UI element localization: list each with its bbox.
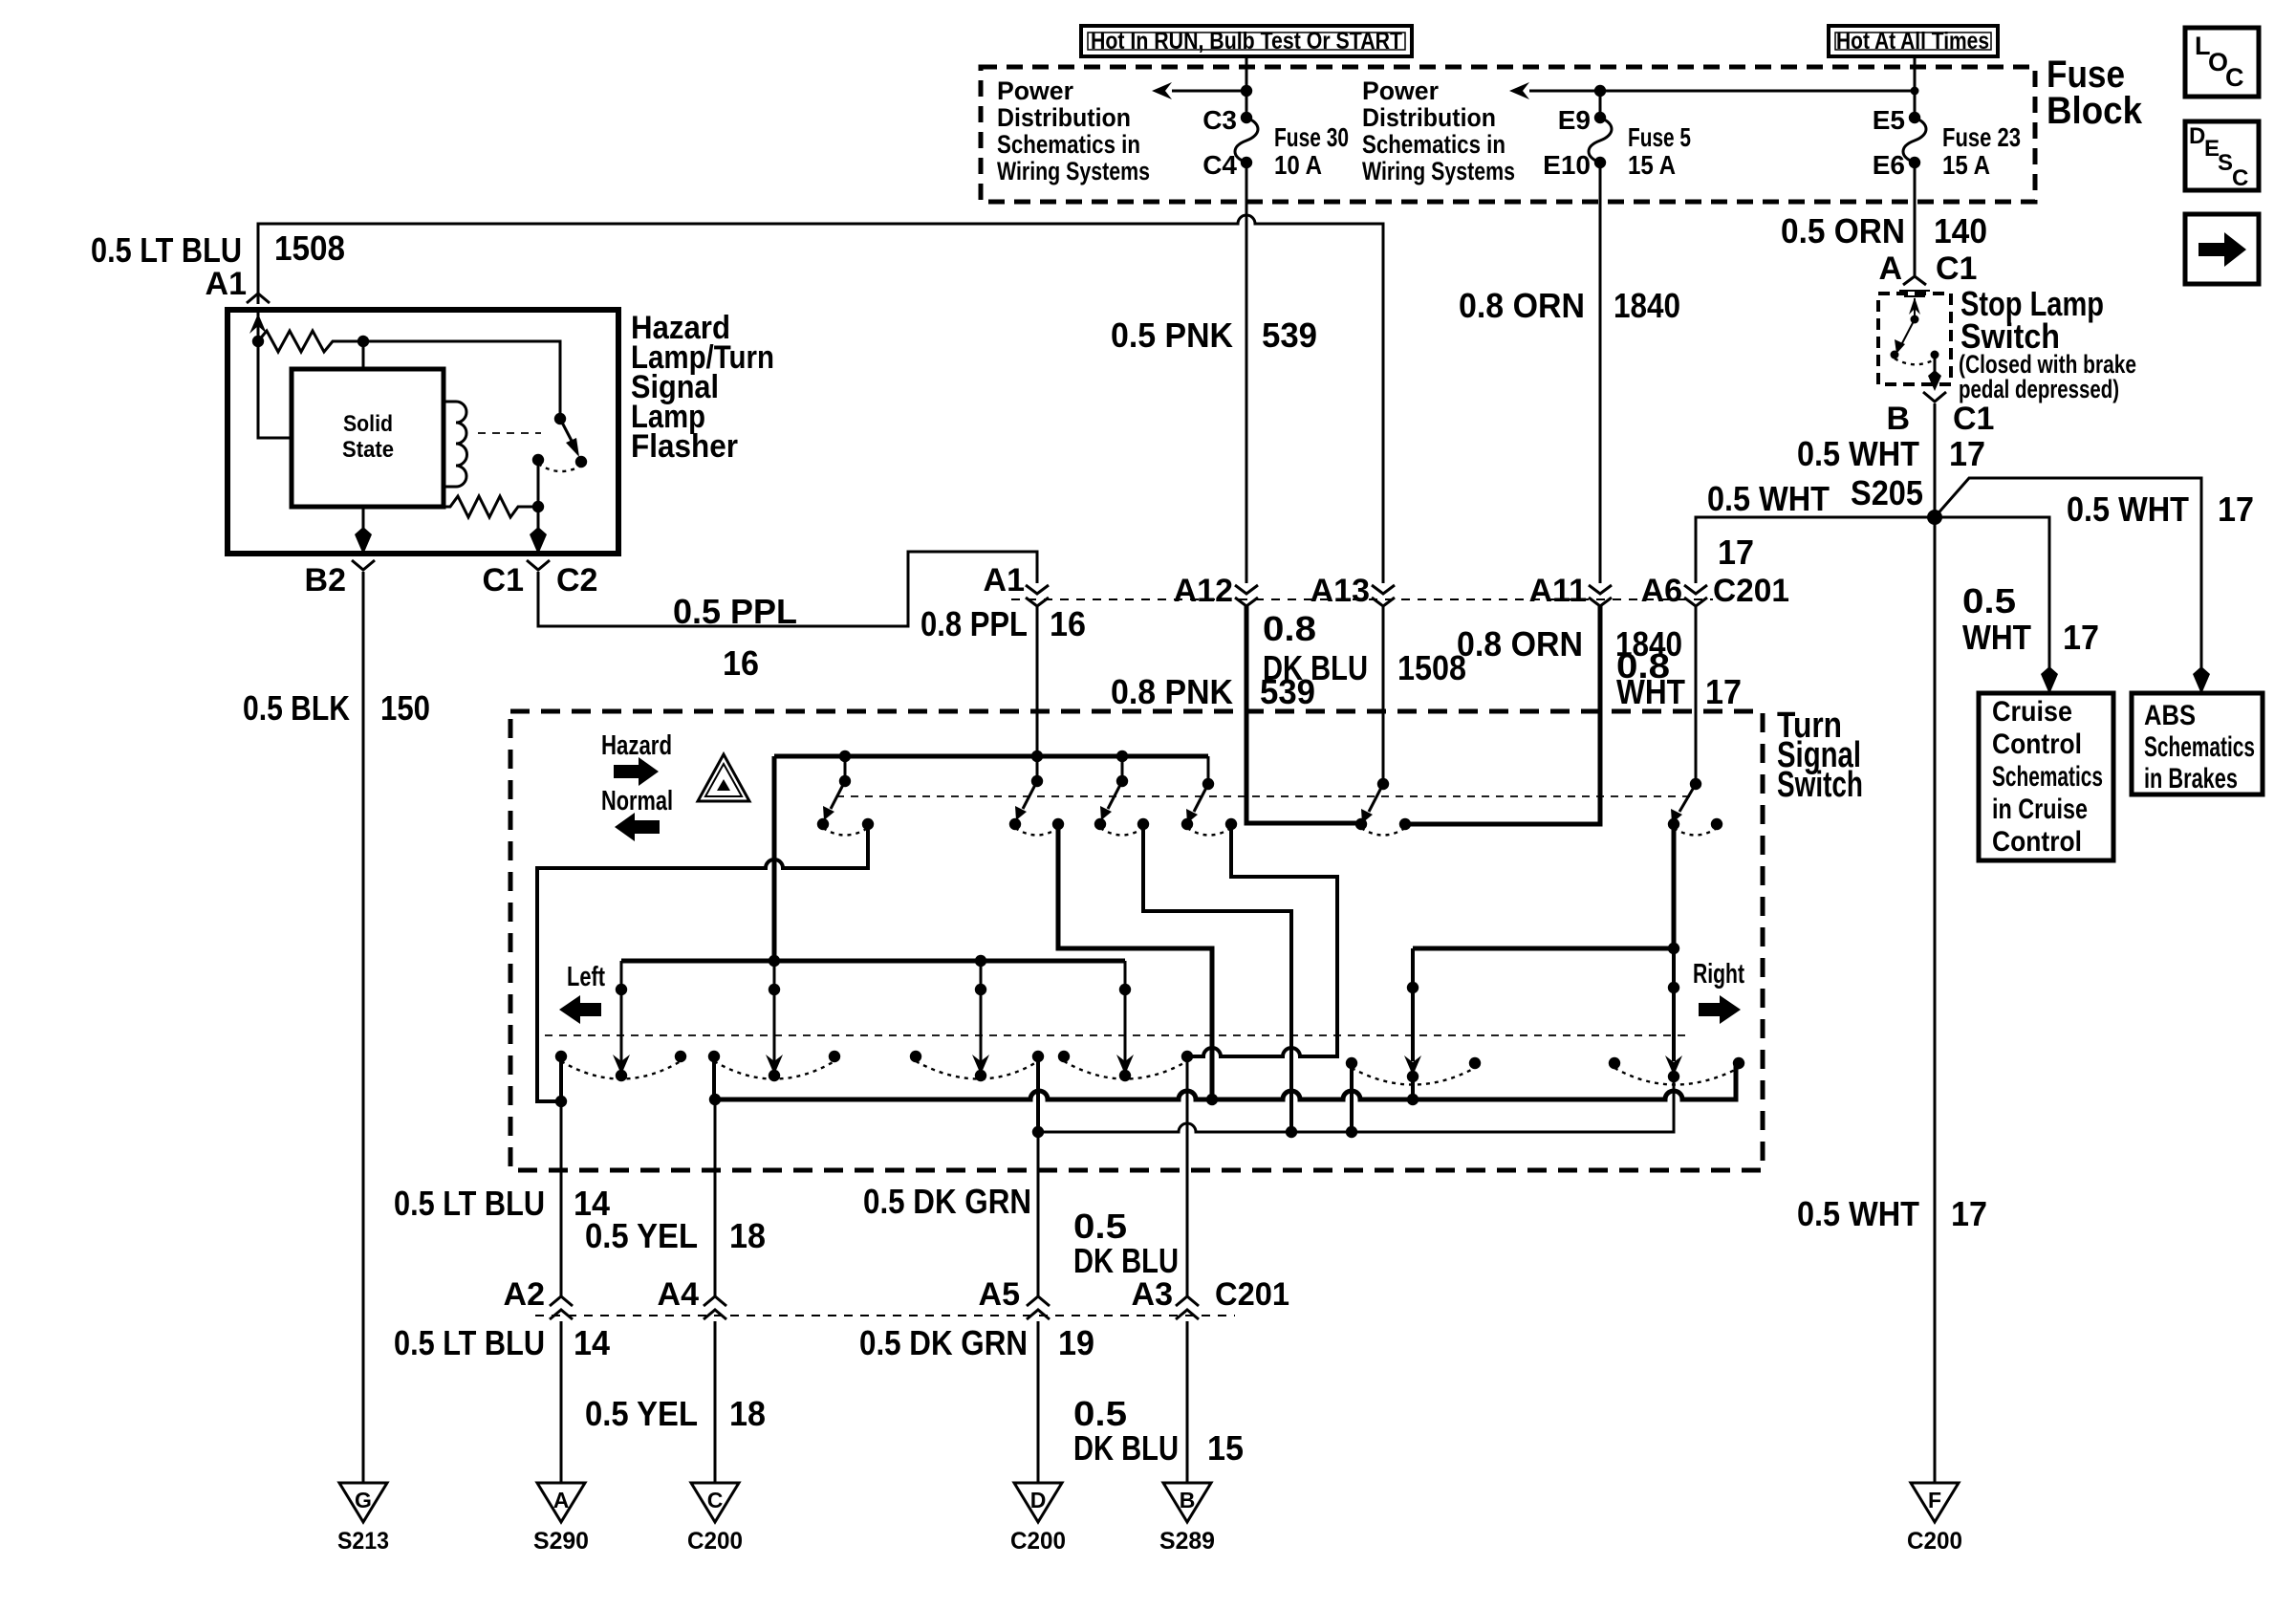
- junction A1/R1: [252, 336, 264, 347]
- label 0.5 YEL 18 (upper): [585, 1216, 766, 1255]
- svg-text:0.5: 0.5: [1073, 1207, 1127, 1246]
- fuse F23 value label: [1942, 122, 2021, 180]
- svg-text:State: State: [342, 437, 394, 463]
- label 0.5 ORN 140: [1781, 211, 1987, 250]
- connector pin A13: [1310, 573, 1395, 609]
- wire S205 to C200 F: [1934, 517, 1937, 1483]
- svg-text:Wiring Systems: Wiring Systems: [997, 157, 1150, 185]
- svg-text:A11: A11: [1529, 573, 1588, 609]
- svg-text:0.8: 0.8: [1263, 609, 1316, 648]
- svg-text:C200: C200: [1907, 1528, 1962, 1555]
- fuse F30 element: [1235, 118, 1258, 163]
- label 0.5 LT BLU 1508: [91, 228, 345, 270]
- wire 0.5 BLK 150 to S213: [362, 572, 365, 1483]
- svg-text:0.5: 0.5: [1073, 1394, 1127, 1433]
- svg-text:S290: S290: [533, 1528, 589, 1555]
- svg-text:16: 16: [1050, 604, 1086, 643]
- connector C1 pin B (stop lamp out): [1886, 392, 1994, 437]
- linkage top row: [836, 795, 1690, 797]
- connector C201 row 1: [1011, 598, 1713, 600]
- svg-text:Solid: Solid: [343, 411, 393, 437]
- flasher switch arm: [560, 419, 579, 457]
- label 0.8 WHT 17: [1616, 646, 1742, 711]
- svg-text:17: 17: [1951, 1194, 1987, 1233]
- svg-text:Hazard: Hazard: [601, 730, 672, 761]
- splice triangle A: [533, 1483, 589, 1555]
- label 0.5 DK BLU 15 (lower): [1073, 1394, 1244, 1468]
- svg-text:Distribution: Distribution: [997, 103, 1131, 132]
- svg-text:1840: 1840: [1615, 624, 1682, 664]
- svg-text:C200: C200: [687, 1528, 743, 1555]
- connector pin A11: [1529, 573, 1613, 609]
- wire 0.5 DK GRN (to A5): [1037, 1132, 1040, 1296]
- label 0.8 DK BLU 1508: [1263, 609, 1466, 687]
- svg-text:D: D: [1030, 1488, 1047, 1512]
- switch SW2 turn feed: [1009, 606, 1064, 836]
- svg-text:DK BLU: DK BLU: [1263, 648, 1368, 687]
- wire 0.8 ORN 1840 (A11 to switch): [1405, 606, 1600, 824]
- wire left rail: [621, 959, 1125, 964]
- right contacts position 1: [1346, 1057, 1481, 1085]
- svg-text:A2: A2: [504, 1276, 545, 1313]
- svg-text:0.5 BLK: 0.5 BLK: [243, 688, 350, 728]
- turn signal switch label: [1777, 706, 1863, 805]
- svg-text:18: 18: [729, 1394, 766, 1433]
- switch SW4: [1181, 756, 1237, 836]
- wire 0.5 PPL 16 (C2 to A1): [538, 552, 1037, 626]
- svg-text:0.5 YEL: 0.5 YEL: [585, 1216, 698, 1255]
- svg-text:0.8 PNK: 0.8 PNK: [1111, 672, 1233, 711]
- wire 0.5 DK BLU (contact to A3): [1186, 1056, 1189, 1296]
- svg-text:17: 17: [1949, 434, 1985, 473]
- fuse F5 pin E9: [1594, 112, 1606, 123]
- label 0.8 ORN 1840 (upper): [1459, 286, 1680, 325]
- svg-text:17: 17: [2218, 490, 2254, 529]
- wire A1 internal with up arrow: [249, 310, 267, 341]
- note power distribution 1: [997, 76, 1150, 185]
- flasher switch arc: [538, 464, 581, 471]
- wire S205 to cruise branch: [1935, 517, 2058, 694]
- svg-text:17: 17: [1705, 672, 1742, 711]
- svg-text:539: 539: [1262, 315, 1317, 355]
- resistor R1: [258, 331, 363, 352]
- connector pin A4: [658, 1276, 726, 1319]
- svg-text:150: 150: [380, 688, 430, 728]
- right contacts position 2: [1609, 1057, 1744, 1085]
- svg-text:DK BLU: DK BLU: [1073, 1428, 1179, 1468]
- label 0.5 WHT 17 (ABS branch): [2067, 490, 2254, 529]
- left position arrow: [559, 995, 601, 1024]
- connector triangle C: [687, 1483, 743, 1555]
- svg-text:A1: A1: [206, 266, 247, 302]
- svg-text:A6: A6: [1641, 573, 1682, 609]
- svg-text:E6: E6: [1873, 150, 1905, 180]
- svg-text:0.5 DK GRN: 0.5 DK GRN: [863, 1182, 1031, 1221]
- flasher switch contacts: [532, 454, 544, 466]
- svg-text:17: 17: [1718, 533, 1754, 572]
- svg-text:C: C: [2225, 63, 2244, 92]
- fuse F23 pin E5: [1909, 112, 1920, 123]
- normal position arrow: [615, 813, 660, 841]
- wire SW4 contact loop to A3 contact: [1187, 824, 1337, 1056]
- svg-text:G: G: [355, 1488, 372, 1512]
- wire B2 output with arrow: [355, 507, 372, 555]
- connector C1 pin A (stop lamp in): [1878, 250, 1977, 296]
- svg-text:C1: C1: [483, 562, 524, 598]
- flasher switch pivot: [554, 413, 566, 424]
- connector pin A12: [1174, 573, 1258, 609]
- wire right rail: [1413, 946, 1674, 951]
- svg-text:ABS: ABS: [2144, 700, 2196, 731]
- wire SW2 contact to rail A: [1058, 824, 1212, 1099]
- svg-text:C1: C1: [1936, 250, 1977, 287]
- wire 0.5 LT BLU 1508 (flasher A1 feed): [258, 215, 1383, 583]
- svg-text:16: 16: [723, 643, 759, 683]
- svg-text:140: 140: [1934, 211, 1987, 250]
- svg-text:0.5 LT BLU: 0.5 LT BLU: [394, 1184, 545, 1223]
- wire S205 to A6: [1696, 517, 1935, 583]
- svg-text:Schematics: Schematics: [1992, 761, 2103, 793]
- svg-text:E5: E5: [1873, 105, 1905, 135]
- solid state module U1: [292, 369, 444, 507]
- splice S205: [1851, 473, 1942, 525]
- connector pin A2: [504, 1276, 573, 1319]
- label 0.5 DK BLU (upper): [1073, 1207, 1179, 1280]
- connector C201 row 2: [535, 1315, 1235, 1316]
- label 0.5 BLK 150: [243, 688, 430, 728]
- svg-text:Right: Right: [1693, 959, 1744, 990]
- label 0.5 WHT 17 (cruise branch): [1962, 581, 2099, 657]
- wire fuse5 output: [1599, 163, 1602, 202]
- note power distribution 2: [1362, 76, 1515, 185]
- wire A4 to C200: [714, 1321, 717, 1483]
- svg-text:C: C: [2232, 165, 2248, 191]
- right wiper 1: [1404, 948, 1421, 1099]
- junction rail B / right flank drop: [1346, 1126, 1357, 1138]
- fuse F30 pin C3: [1241, 112, 1252, 123]
- wire rail drop to left rail: [772, 756, 777, 961]
- left contacts position 2: [708, 1051, 840, 1079]
- fuse block label: [2047, 54, 2143, 132]
- flasher pin A1: [206, 266, 270, 303]
- label 0.8 PNK 539: [1111, 672, 1315, 711]
- wire 0.5 YEL 18 (to A4): [714, 1099, 717, 1296]
- hazard position arrow: [614, 757, 659, 786]
- svg-text:18: 18: [729, 1216, 766, 1255]
- right position arrow: [1699, 995, 1741, 1024]
- svg-text:10 A: 10 A: [1274, 150, 1322, 180]
- svg-text:A5: A5: [979, 1276, 1020, 1313]
- label 0.5 PPL 16: [673, 592, 797, 683]
- svg-text:C2: C2: [556, 562, 597, 598]
- svg-text:Flasher: Flasher: [631, 428, 738, 465]
- legend box LOC: [2185, 28, 2259, 97]
- connector pin A6: [1641, 573, 1789, 609]
- svg-text:14: 14: [574, 1323, 610, 1362]
- svg-text:0.5 LT BLU: 0.5 LT BLU: [394, 1323, 545, 1362]
- connector pin A1: [984, 562, 1049, 606]
- svg-text:Cruise: Cruise: [1992, 696, 2072, 728]
- note cruise control schematics box: [1979, 693, 2113, 860]
- svg-text:Schematics in: Schematics in: [997, 130, 1140, 159]
- svg-text:F: F: [1928, 1488, 1941, 1512]
- svg-text:0.5 DK GRN: 0.5 DK GRN: [859, 1323, 1028, 1362]
- label 0.5 YEL 18 (lower): [585, 1394, 766, 1433]
- svg-text:S205: S205: [1851, 473, 1923, 512]
- label 0.5 LT BLU 14 (upper): [394, 1184, 610, 1223]
- fuse F30 value label: [1274, 122, 1349, 180]
- svg-text:C200: C200: [1010, 1528, 1066, 1555]
- left wiper 3: [972, 955, 989, 1081]
- svg-text:A13: A13: [1310, 573, 1370, 609]
- switch SW1 hazard pilot: [817, 751, 874, 836]
- wire 0.5 LT BLU 14 (to A2): [560, 1101, 563, 1296]
- svg-text:19: 19: [1058, 1323, 1094, 1362]
- legend box DESC: [2185, 121, 2259, 191]
- svg-text:Wiring Systems: Wiring Systems: [1362, 157, 1515, 185]
- splice triangle B: [1159, 1483, 1215, 1555]
- wire SW1 contact to left block: [537, 824, 868, 1101]
- stop lamp switch output arrow: [1928, 355, 1941, 391]
- wire power distribution tap 2 with arrow: [1509, 82, 1915, 99]
- wire R1 rail to switch: [363, 341, 560, 419]
- left wiper 1: [613, 961, 630, 1081]
- svg-text:A12: A12: [1174, 573, 1233, 609]
- left contacts position 4: [1058, 1051, 1193, 1079]
- fuse F23 element: [1903, 118, 1926, 163]
- svg-text:C201: C201: [1215, 1276, 1289, 1313]
- svg-text:S213: S213: [337, 1528, 389, 1555]
- svg-text:DK BLU: DK BLU: [1073, 1241, 1179, 1280]
- right wiper 2: [1665, 948, 1682, 1132]
- svg-text:Control: Control: [1992, 826, 2082, 858]
- svg-text:Switch: Switch: [1777, 765, 1863, 805]
- wire A5 to C200: [1037, 1321, 1040, 1483]
- svg-text:B: B: [1886, 401, 1910, 437]
- svg-text:D: D: [2189, 123, 2205, 149]
- fuse F5 value label: [1628, 122, 1691, 180]
- fuse block box: [981, 67, 2035, 202]
- wire A6 to turn signal switch: [1695, 606, 1698, 781]
- wire A2 to S290: [560, 1321, 563, 1483]
- wire flank A2 drop: [559, 1056, 563, 1101]
- svg-text:Hot At All Times: Hot At All Times: [1836, 28, 1989, 54]
- label 0.5 WHT 17: [1797, 434, 1985, 473]
- label 0.5 DK GRN 19 (lower): [859, 1323, 1094, 1362]
- svg-text:0.5: 0.5: [1962, 581, 2016, 620]
- svg-text:Power: Power: [997, 76, 1073, 105]
- svg-text:S: S: [2218, 150, 2233, 176]
- left wiper 4: [1116, 961, 1134, 1081]
- svg-text:1840: 1840: [1614, 286, 1680, 325]
- junction rail B / SW3 drop: [1286, 1126, 1297, 1138]
- wire SW3 contact to rail B: [1143, 824, 1291, 1132]
- svg-text:Fuse 30: Fuse 30: [1274, 122, 1349, 152]
- svg-text:in Cruise: in Cruise: [1992, 794, 2088, 825]
- svg-text:C1: C1: [1953, 401, 1994, 437]
- svg-text:A: A: [1878, 250, 1902, 287]
- wire left branch to solid state: [258, 341, 292, 438]
- svg-text:0.5 WHT: 0.5 WHT: [1797, 1194, 1919, 1233]
- label 0.8 ORN 1840 (lower): [1457, 624, 1682, 664]
- flasher pins C1 C2: [483, 560, 598, 598]
- stop lamp switch wire in with up arrow: [1909, 297, 1920, 319]
- junction rail A / SW2 drop: [1206, 1094, 1218, 1105]
- connector pin A5: [979, 1276, 1050, 1319]
- junction A4 rail A: [709, 1094, 721, 1105]
- svg-text:0.5 WHT: 0.5 WHT: [1797, 434, 1919, 473]
- junction R1 out: [357, 336, 369, 347]
- svg-text:0.5 WHT: 0.5 WHT: [2067, 490, 2189, 529]
- svg-text:B2: B2: [305, 562, 346, 598]
- junction R2/C: [532, 501, 544, 512]
- svg-text:Schematics in: Schematics in: [1362, 130, 1505, 159]
- svg-text:15: 15: [1207, 1428, 1244, 1468]
- legend box forward arrow: [2185, 214, 2259, 284]
- svg-text:Distribution: Distribution: [1362, 103, 1496, 132]
- svg-text:Fuse 23: Fuse 23: [1942, 122, 2021, 152]
- splice triangle G: [337, 1483, 389, 1555]
- svg-text:0.5 PPL: 0.5 PPL: [673, 592, 797, 631]
- wire hot-run feed to fuse 30: [1245, 56, 1248, 118]
- switch SW3: [1094, 751, 1149, 836]
- svg-text:B: B: [1180, 1488, 1196, 1512]
- wire rail B: [1038, 1076, 1674, 1132]
- svg-text:WHT: WHT: [1962, 618, 2031, 657]
- stop lamp switch pivot: [1911, 315, 1919, 324]
- svg-text:0.5 YEL: 0.5 YEL: [585, 1394, 698, 1433]
- hazard warning icon: [698, 754, 749, 801]
- wire 0.5 WHT 17 (stop lamp to S205): [1934, 403, 1937, 517]
- stop lamp switch arm: [1895, 319, 1915, 354]
- switch SW5 hazard lamp feed: [1355, 606, 1411, 836]
- svg-text:S289: S289: [1159, 1528, 1215, 1555]
- svg-text:0.5 LT BLU: 0.5 LT BLU: [91, 230, 242, 270]
- svg-text:0.5 ORN: 0.5 ORN: [1781, 211, 1905, 250]
- wire solid state top feed: [362, 341, 365, 369]
- svg-text:Hot In RUN, Bulb Test Or START: Hot In RUN, Bulb Test Or START: [1091, 28, 1402, 54]
- wire hazard feed rail: [774, 754, 1208, 759]
- switch SW6 brake feed: [1668, 778, 1722, 836]
- left contacts position 1: [555, 1051, 686, 1079]
- junction right rail: [1668, 943, 1679, 954]
- svg-text:0.8 ORN: 0.8 ORN: [1457, 624, 1583, 664]
- flasher box: [227, 310, 618, 554]
- wire power distribution tap 1 with arrow: [1152, 82, 1252, 99]
- coil to switch dashed link: [478, 432, 541, 434]
- coil L1: [444, 402, 467, 487]
- power label box "Hot At All Times": [1829, 26, 1998, 56]
- resistor R2: [444, 496, 538, 517]
- svg-text:0.5 PNK: 0.5 PNK: [1111, 315, 1233, 355]
- wire right flank to rail B: [1350, 1063, 1354, 1132]
- svg-text:C201: C201: [1713, 573, 1789, 609]
- fuse F5 element: [1589, 118, 1612, 163]
- svg-text:E9: E9: [1558, 105, 1591, 135]
- fuse F23 pin E6: [1909, 157, 1920, 168]
- svg-text:WHT: WHT: [1616, 672, 1685, 711]
- svg-text:Schematics: Schematics: [2144, 731, 2255, 763]
- connector triangle F: [1907, 1483, 1962, 1555]
- svg-text:Fuse 5: Fuse 5: [1628, 122, 1691, 152]
- left wiper 2: [766, 955, 783, 1081]
- label 0.5 PNK 539: [1111, 315, 1317, 355]
- power label box "Hot In RUN, Bulb Test Or START": [1081, 26, 1412, 56]
- label stop lamp switch: [1959, 284, 2136, 403]
- svg-text:Power: Power: [1362, 76, 1439, 105]
- stop lamp switch arc: [1895, 359, 1935, 364]
- fuse F30 pin C4: [1241, 157, 1252, 168]
- fuse F5 pin E10: [1594, 157, 1606, 168]
- flasher pin B2: [305, 560, 375, 598]
- svg-text:Control: Control: [1992, 729, 2082, 760]
- svg-text:A: A: [553, 1488, 570, 1512]
- wire 0.8 PNK 539 (A12 to switch): [1246, 606, 1361, 823]
- svg-text:C3: C3: [1202, 105, 1237, 135]
- left contacts position 3: [910, 1051, 1044, 1079]
- svg-text:Normal: Normal: [601, 786, 673, 816]
- connector triangle D: [1010, 1483, 1066, 1555]
- connector pin A3: [1132, 1276, 1289, 1319]
- svg-text:17: 17: [2063, 618, 2099, 657]
- svg-text:A1: A1: [984, 562, 1025, 598]
- svg-text:1508: 1508: [274, 228, 345, 268]
- linkage bottom row: [545, 1034, 1692, 1036]
- svg-text:C4: C4: [1202, 150, 1237, 180]
- wire 0.8 ORN 1840 (fuse 5 to A11): [1599, 202, 1602, 583]
- wire SW6 contact to right wiper: [1672, 824, 1677, 948]
- label 0.5 LT BLU 14 (lower): [394, 1323, 610, 1362]
- svg-text:Left: Left: [567, 962, 605, 992]
- note abs schematics box: [2132, 693, 2263, 794]
- svg-text:0.8 PPL: 0.8 PPL: [921, 604, 1028, 643]
- wire A3 to S289: [1186, 1321, 1189, 1483]
- svg-text:0.8 ORN: 0.8 ORN: [1459, 286, 1585, 325]
- wire flank A4 drop: [712, 1056, 716, 1099]
- svg-text:0.5 WHT: 0.5 WHT: [1707, 479, 1830, 518]
- svg-text:15 A: 15 A: [1628, 150, 1676, 180]
- flasher label: [631, 310, 774, 465]
- wire rail A: [715, 1063, 1736, 1099]
- svg-text:Block: Block: [2047, 90, 2143, 132]
- svg-text:in Brakes: in Brakes: [2144, 763, 2238, 794]
- junction A5 rail B: [1032, 1126, 1044, 1138]
- wire fuse30 output: [1245, 163, 1248, 202]
- wire fuse5 feed: [1599, 91, 1602, 118]
- wire 0.5 ORN 140: [1914, 202, 1917, 275]
- label 0.5 WHT 17 (bottom): [1797, 1194, 1987, 1233]
- svg-text:E10: E10: [1543, 150, 1591, 180]
- junction rail A / right wiper: [1407, 1094, 1419, 1105]
- wire 0.5 PNK 539 (fuse 30 to A12): [1245, 202, 1248, 583]
- stop lamp switch contacts: [1891, 351, 1899, 359]
- svg-text:C: C: [707, 1488, 724, 1512]
- wire switch contact to C junction: [537, 460, 540, 507]
- wire C output with arrow: [530, 507, 547, 555]
- junction A2: [555, 1096, 567, 1107]
- turn signal switch box: [510, 711, 1763, 1170]
- svg-text:A4: A4: [658, 1276, 700, 1313]
- wire fuse23 output: [1914, 163, 1917, 202]
- stop lamp switch box: [1878, 294, 1951, 384]
- wire S205 to ABS branch: [1935, 478, 2210, 694]
- svg-text:A3: A3: [1132, 1276, 1173, 1313]
- svg-text:15 A: 15 A: [1942, 150, 1990, 180]
- wire hot-at-all-times feed: [1914, 56, 1917, 118]
- svg-text:pedal depressed): pedal depressed): [1959, 375, 2119, 403]
- label 0.8 PPL 16: [921, 604, 1086, 643]
- wire flank A5 drop: [1036, 1056, 1040, 1132]
